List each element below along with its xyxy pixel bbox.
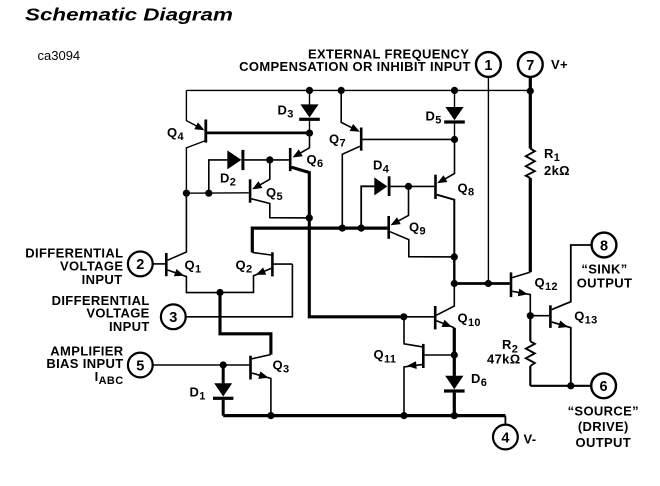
- svg-text:INPUT: INPUT: [109, 319, 150, 334]
- node A compensation node dot: [451, 280, 458, 287]
- svg-text:1: 1: [484, 58, 492, 74]
- node dot rail-Q7: [338, 87, 345, 94]
- svg-text:Schematic Diagram: Schematic Diagram: [25, 6, 233, 25]
- wire R2 bottom to terminal 6: [530, 385, 591, 387]
- node dot D1 anode: [220, 361, 227, 368]
- transistor Q11: [374, 317, 454, 416]
- svg-text:INPUT: INPUT: [82, 272, 123, 287]
- svg-text:3: 3: [169, 310, 177, 326]
- transistor Q4: [167, 90, 206, 193]
- diode D5: [426, 90, 465, 139]
- diode D2: [209, 150, 289, 193]
- svg-text:COMPENSATION OR INHIBIT INPUT: COMPENSATION OR INHIBIT INPUT: [239, 59, 471, 74]
- node dot Q12 emitter-Q13 base-R2: [527, 312, 534, 319]
- svg-text:“SOURCE”: “SOURCE”: [568, 403, 639, 418]
- transistor Q7: [329, 90, 361, 228]
- svg-text:5: 5: [136, 358, 144, 374]
- wire compensation node to Q12 base: [454, 282, 509, 285]
- diode D1: [190, 365, 234, 416]
- terminal 3 circle: [161, 304, 186, 329]
- svg-text:“SINK”: “SINK”: [581, 262, 627, 277]
- diode D3: [278, 90, 320, 133]
- wire mirror bus Q2 collector to Q9 base: [252, 228, 387, 252]
- svg-text:47kΩ: 47kΩ: [487, 352, 521, 367]
- transistor Q13: [530, 245, 597, 386]
- node dot Q11 base-Q10 emitter: [451, 351, 458, 358]
- wire bottom V- rail: [223, 414, 505, 417]
- svg-text:2: 2: [136, 257, 144, 273]
- terminal 1 circle: [476, 52, 501, 77]
- svg-text:8: 8: [600, 238, 608, 254]
- wire top V+ rail: [186, 89, 530, 91]
- wire terminal 5 to Q3 base: [152, 364, 249, 366]
- node dot Q10 base-Q11 collector: [400, 313, 407, 320]
- node dot Q8/Q9 collectors: [451, 253, 458, 260]
- terminal 4 circle: [493, 425, 518, 450]
- svg-text:4: 4: [501, 430, 509, 446]
- node dot bus-Q7 collector: [339, 225, 346, 232]
- resistor R2: [487, 316, 535, 386]
- wire Q5 base line: [186, 192, 248, 194]
- node dot terminal1-Q12 base: [485, 280, 492, 287]
- wire emitters node to Q3 collector: [220, 293, 271, 355]
- transistor Q3: [251, 355, 290, 416]
- svg-text:VOLTAGE: VOLTAGE: [86, 305, 149, 320]
- node dot D5-Q7 base-Q8 emitter: [451, 136, 458, 143]
- wire Q7 base to D5 cathode: [363, 138, 455, 140]
- diode D4: [361, 157, 434, 228]
- node dot Q1/Q2 emitters: [216, 289, 223, 296]
- node dot bus-D4 anode: [358, 225, 365, 232]
- svg-text:V-: V-: [524, 432, 537, 447]
- node dot rail-R1: [527, 87, 534, 94]
- svg-text:ca3094: ca3094: [38, 48, 81, 63]
- wire terminal 7 stem: [529, 78, 532, 92]
- svg-text:BIAS INPUT: BIAS INPUT: [46, 356, 123, 371]
- terminal 5 circle: [128, 353, 153, 378]
- wire terminal 2 to Q1 base: [152, 263, 165, 265]
- terminal 8 circle: [592, 233, 617, 258]
- transistor Q10: [435, 284, 481, 376]
- svg-text:7: 7: [526, 58, 534, 74]
- node dot rail-Q3 emitter: [267, 412, 274, 419]
- node dot left chain - Q5 base: [183, 190, 190, 197]
- node dot rail-Q11 emitter: [400, 412, 407, 419]
- svg-text:OUTPUT: OUTPUT: [577, 275, 633, 290]
- transistor Q8: [436, 140, 475, 257]
- transistor Q9: [389, 186, 455, 257]
- svg-text:V+: V+: [551, 57, 568, 72]
- terminal 7 circle: [518, 52, 543, 77]
- node dot rail-D6: [451, 412, 458, 419]
- node dot D3-Q4 base: [306, 130, 313, 137]
- wire Q9 collector node down to Q12 base node: [453, 257, 455, 284]
- node dot rail-D5: [451, 87, 458, 94]
- wire Q10 base line: [404, 316, 434, 318]
- svg-text:6: 6: [600, 379, 608, 395]
- node dot Q5/Q6 collectors: [306, 214, 313, 221]
- transistor Q5: [250, 160, 309, 218]
- diode D6: [444, 371, 487, 416]
- terminal 6 circle: [591, 373, 616, 398]
- node dot D2 anode loop: [205, 190, 212, 197]
- wire Q4 base to D3 cathode: [207, 131, 310, 134]
- svg-text:OUTPUT: OUTPUT: [576, 435, 632, 450]
- node dot Q13 emitter-terminal 6: [567, 382, 574, 389]
- terminal 2 circle: [128, 252, 153, 277]
- transistor Q1: [166, 193, 220, 292]
- node dot D2 cathode - Q5 emitter: [266, 156, 273, 163]
- wire terminal 3 to Q2 base: [185, 264, 293, 317]
- transistor Q2: [220, 252, 292, 292]
- wire terminal 1 stem down to Q12 base node: [487, 78, 489, 284]
- svg-text:(DRIVE): (DRIVE): [578, 419, 629, 434]
- resistor R1: [526, 91, 570, 272]
- node dot rail-D3: [306, 87, 313, 94]
- transistor Q6: [290, 133, 404, 317]
- svg-text:2kΩ: 2kΩ: [544, 163, 570, 178]
- node dot D4 cathode-Q9 emitter: [405, 183, 412, 190]
- transistor Q12: [511, 272, 558, 316]
